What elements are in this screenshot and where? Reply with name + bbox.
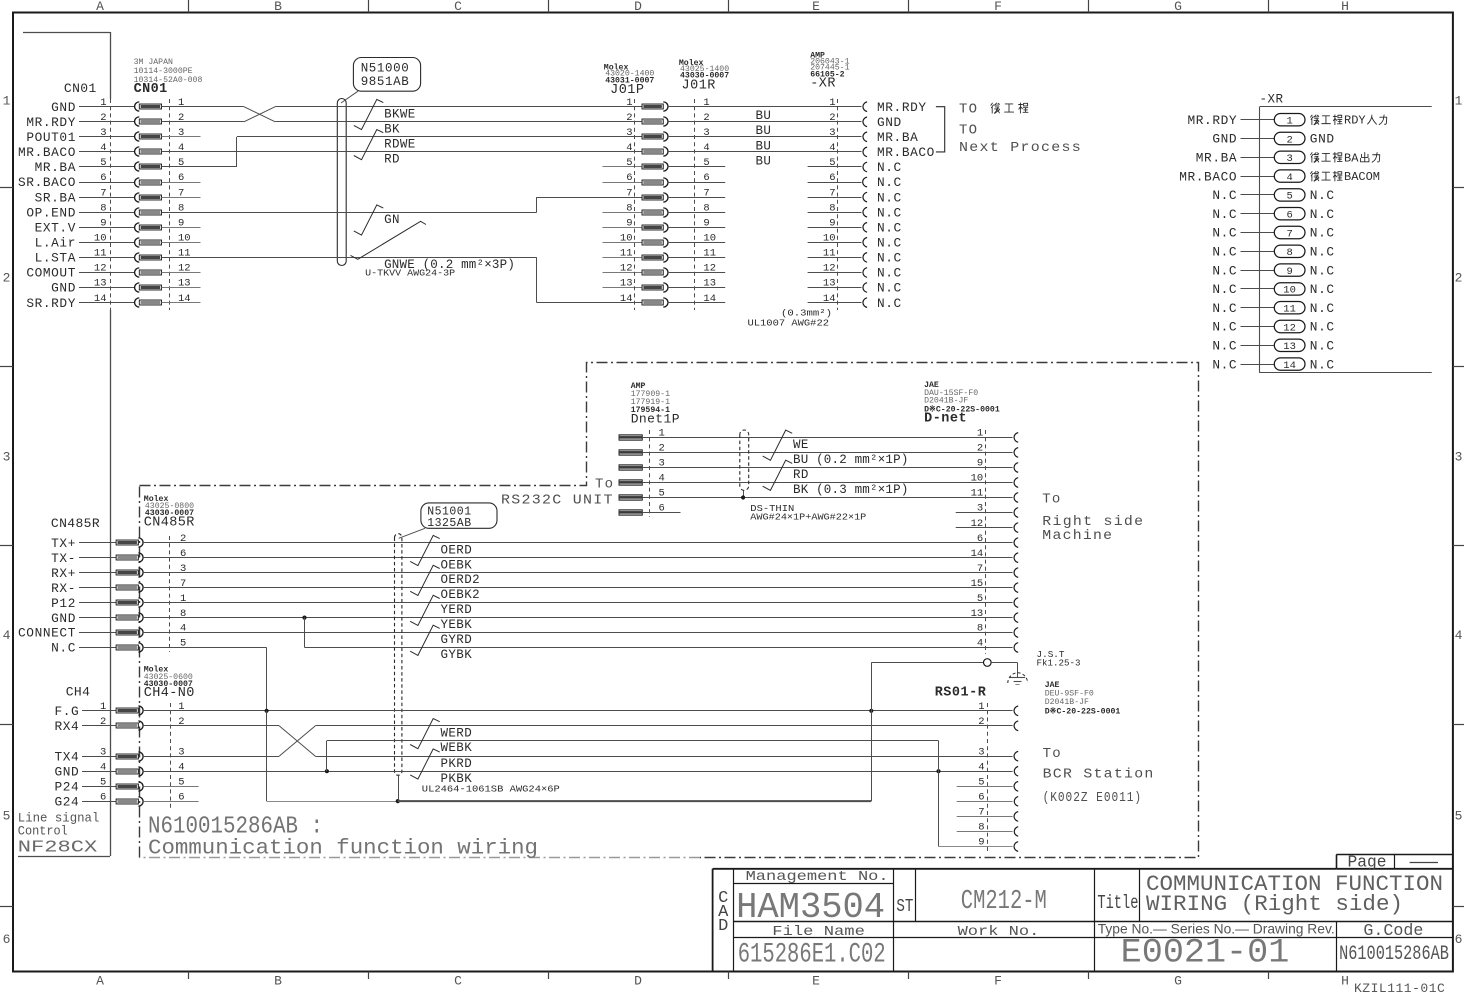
svg-text:N.C: N.C xyxy=(1310,339,1335,354)
svg-text:11: 11 xyxy=(620,248,633,260)
CN01 pin 3 stub xyxy=(162,136,201,138)
svg-text:3: 3 xyxy=(1455,449,1463,464)
svg-text:POUT01: POUT01 xyxy=(26,130,76,145)
svg-text:E0021-01: E0021-01 xyxy=(1121,934,1290,972)
Dnet cable shield dashed oval xyxy=(740,430,749,490)
svg-text:OEBK2: OEBK2 xyxy=(441,588,481,602)
svg-text:File Name: File Name xyxy=(772,924,865,940)
wires Dnet1P to D-net xyxy=(642,437,1012,439)
svg-text:11: 11 xyxy=(94,248,107,260)
svg-text:5: 5 xyxy=(100,776,106,788)
Dnet1P pin 2 contact xyxy=(619,450,642,455)
svg-text:3: 3 xyxy=(829,127,835,139)
svg-text:6: 6 xyxy=(1455,932,1463,947)
wire CN01-1 to crossover xyxy=(162,106,244,108)
svg-text:N.C: N.C xyxy=(1212,188,1237,203)
machine boundary bracket top xyxy=(23,32,110,34)
svg-text:N.C: N.C xyxy=(1212,245,1237,260)
svg-text:To: To xyxy=(1043,746,1062,762)
svg-text:N51000: N51000 xyxy=(361,62,410,76)
svg-text:7: 7 xyxy=(626,187,632,199)
svg-text:L.STA: L.STA xyxy=(35,251,76,266)
svg-text:YERD: YERD xyxy=(441,603,473,617)
wire CN01-11 L.STA jog down xyxy=(162,257,537,259)
wire TX4 to crossover xyxy=(144,756,279,758)
svg-text:2: 2 xyxy=(703,112,709,124)
svg-text:RDWE: RDWE xyxy=(384,137,416,151)
svg-text:D2041B-JF: D2041B-JF xyxy=(1045,698,1089,707)
svg-text:KZIL111-01C: KZIL111-01C xyxy=(1354,981,1445,992)
svg-text:OERD2: OERD2 xyxy=(441,573,481,587)
svg-text:F: F xyxy=(994,0,1002,14)
wire PKRD to RS01-R pin 3 xyxy=(315,756,1012,758)
svg-text:4: 4 xyxy=(100,761,106,773)
svg-text:GND: GND xyxy=(51,100,76,115)
svg-text:BU: BU xyxy=(756,124,772,138)
svg-text:N.C: N.C xyxy=(1212,339,1237,354)
svg-text:MR.BA: MR.BA xyxy=(35,160,76,175)
svg-text:NF28CX: NF28CX xyxy=(18,839,98,858)
svg-text:Title: Title xyxy=(1097,892,1138,914)
svg-text:A: A xyxy=(96,0,104,14)
svg-text:4: 4 xyxy=(1455,628,1463,643)
svg-text:Fk1.25-3: Fk1.25-3 xyxy=(1037,658,1081,669)
svg-text:3: 3 xyxy=(703,127,709,139)
cable label box N51000 9851AB xyxy=(353,58,420,92)
svg-text:4: 4 xyxy=(178,142,184,154)
svg-text:13: 13 xyxy=(620,278,633,290)
svg-text:N.C: N.C xyxy=(1310,245,1335,260)
leader from N51001 box to shield xyxy=(399,528,425,538)
svg-text:5: 5 xyxy=(703,157,709,169)
svg-text:N.C: N.C xyxy=(877,236,902,251)
svg-text:8: 8 xyxy=(100,202,106,214)
J01R housing dashed line xyxy=(694,99,696,310)
svg-text:BK (0.3 mm²×1P): BK (0.3 mm²×1P) xyxy=(793,483,909,497)
svg-text:Line signal: Line signal xyxy=(18,812,100,826)
svg-text:PKRD: PKRD xyxy=(441,757,473,771)
wire GNWE to J01P-14 xyxy=(537,302,642,304)
svg-text:CONNECT: CONNECT xyxy=(18,626,76,641)
svg-text:14: 14 xyxy=(94,293,107,305)
svg-text:G: G xyxy=(1174,974,1182,989)
wire RX4 to crossover xyxy=(144,725,279,727)
svg-text:10: 10 xyxy=(620,233,633,245)
svg-text:SR.RDY: SR.RDY xyxy=(26,296,76,311)
svg-text:CH4-N0: CH4-N0 xyxy=(144,686,195,701)
svg-text:6: 6 xyxy=(626,172,632,184)
communication function boundary dash-dot box xyxy=(140,363,1199,858)
svg-text:2: 2 xyxy=(626,112,632,124)
svg-text:N.C: N.C xyxy=(1310,263,1335,278)
svg-text:10: 10 xyxy=(1283,285,1296,297)
svg-text:D-net: D-net xyxy=(924,412,967,427)
svg-text:RX+: RX+ xyxy=(51,566,76,581)
wire to RS01-R pin 9 xyxy=(939,846,1013,848)
svg-text:Dnet1P: Dnet1P xyxy=(631,412,680,427)
svg-text:1: 1 xyxy=(1286,116,1292,128)
svg-text:1: 1 xyxy=(977,428,983,440)
svg-text:10: 10 xyxy=(971,473,984,485)
svg-text:WIRING (Right side): WIRING (Right side) xyxy=(1146,892,1403,917)
splice circle J.S.T Fk1.25-3 xyxy=(984,659,992,667)
svg-text:MR.BACO: MR.BACO xyxy=(877,145,935,160)
svg-text:MR.RDY: MR.RDY xyxy=(1188,113,1238,128)
svg-text:CN01: CN01 xyxy=(134,82,168,97)
svg-text:7: 7 xyxy=(1286,228,1292,240)
machine boundary vertical line xyxy=(110,32,112,99)
svg-text:10: 10 xyxy=(94,233,107,245)
svg-text:4: 4 xyxy=(703,142,709,154)
svg-text:5: 5 xyxy=(100,157,106,169)
svg-text:N.C: N.C xyxy=(877,175,902,190)
svg-text:N.C: N.C xyxy=(1212,301,1237,316)
wire F.G row to RS01-R pin 1 xyxy=(144,710,1013,712)
svg-text:RS01-R: RS01-R xyxy=(935,686,987,701)
svg-text:Management No.: Management No. xyxy=(746,869,889,885)
svg-text:1: 1 xyxy=(3,94,11,109)
svg-text:6: 6 xyxy=(100,172,106,184)
svg-text:(K002Z E0011): (K002Z E0011) xyxy=(1043,790,1143,806)
svg-text:GND: GND xyxy=(51,611,76,626)
svg-text:Control: Control xyxy=(18,825,68,839)
zone tick marks right xyxy=(1453,187,1464,189)
svg-text:9: 9 xyxy=(978,837,984,849)
svg-text:OEBK: OEBK xyxy=(441,558,473,572)
Dnet1P housing dashed line xyxy=(649,430,651,517)
svg-text:YEBK: YEBK xyxy=(441,618,473,632)
svg-text:N.C: N.C xyxy=(1212,357,1237,372)
svg-text:9: 9 xyxy=(977,458,983,470)
svg-text:COMOUT: COMOUT xyxy=(26,266,76,281)
D-net housing dashed line xyxy=(985,430,987,654)
wire crossover X pins 1-2 xyxy=(244,107,275,122)
svg-text:5: 5 xyxy=(626,157,632,169)
svg-text:C: C xyxy=(454,974,462,989)
Dnet1P pin 3 contact xyxy=(619,465,642,470)
svg-text:BACOM: BACOM xyxy=(1344,170,1380,184)
svg-text:Machine: Machine xyxy=(1042,528,1113,544)
svg-text:GND: GND xyxy=(1310,132,1335,147)
svg-text:N.C: N.C xyxy=(877,296,902,311)
wires CN485R to D-net xyxy=(144,542,1013,544)
svg-text:2: 2 xyxy=(100,112,106,124)
svg-text:N.C: N.C xyxy=(877,190,902,205)
ground wire from RS01-R pin1 branch xyxy=(871,662,983,664)
svg-text:Page: Page xyxy=(1348,854,1387,873)
svg-text:4: 4 xyxy=(100,142,106,154)
svg-text:TX-: TX- xyxy=(51,551,76,566)
svg-text:4: 4 xyxy=(978,762,984,774)
svg-text:BA: BA xyxy=(1344,151,1359,165)
svg-text:5: 5 xyxy=(829,157,835,169)
svg-text:C: C xyxy=(454,0,462,14)
CN01 housing dashed lines xyxy=(110,99,112,310)
svg-text:14: 14 xyxy=(971,548,984,560)
page dash xyxy=(1410,862,1438,864)
cable label box N51001 1325AB xyxy=(421,503,497,528)
svg-text:3: 3 xyxy=(3,449,11,464)
wire RD CN01-4 to J01P-4 xyxy=(162,151,643,153)
svg-text:4: 4 xyxy=(3,628,11,643)
svg-text:GN: GN xyxy=(384,213,400,227)
svg-text:12: 12 xyxy=(1283,322,1296,334)
svg-text:MR.BACO: MR.BACO xyxy=(1179,169,1237,184)
svg-text:N.C: N.C xyxy=(877,205,902,220)
svg-text:N.C: N.C xyxy=(1212,226,1237,241)
CH4 P24 stub xyxy=(144,786,199,788)
svg-text:J01P: J01P xyxy=(610,83,644,98)
svg-text:E: E xyxy=(812,974,820,989)
svg-text:D: D xyxy=(634,974,642,989)
svg-text:5: 5 xyxy=(1455,809,1463,824)
svg-text:2: 2 xyxy=(977,443,983,455)
svg-text:P12: P12 xyxy=(51,596,76,611)
svg-text:RX4: RX4 xyxy=(54,719,79,734)
Dnet1P pin 6 contact xyxy=(619,510,642,515)
svg-text:ST: ST xyxy=(896,897,913,917)
svg-text:-XR: -XR xyxy=(810,77,836,92)
svg-text:To: To xyxy=(595,477,614,493)
svg-text:EXT.V: EXT.V xyxy=(35,221,76,236)
svg-text:N.C: N.C xyxy=(1310,188,1335,203)
CN485R housing dashed line xyxy=(169,536,171,652)
svg-text:N.C: N.C xyxy=(1310,301,1335,316)
svg-text:OERD: OERD xyxy=(441,543,473,557)
svg-text:-XR: -XR xyxy=(1260,93,1284,107)
svg-text:F.G: F.G xyxy=(54,704,79,719)
zone tick marks left xyxy=(0,187,13,189)
svg-text:1: 1 xyxy=(978,701,984,713)
svg-text:WE: WE xyxy=(793,438,809,452)
svg-text:N.C: N.C xyxy=(1212,207,1237,222)
wire CN485R N.C to F.G junction xyxy=(144,647,267,649)
RS01-R stub pins 5-8 xyxy=(957,786,1013,788)
svg-text:RX-: RX- xyxy=(51,581,76,596)
svg-text:3: 3 xyxy=(978,746,984,758)
svg-text:13: 13 xyxy=(1283,341,1296,353)
svg-text:1: 1 xyxy=(703,97,709,109)
svg-text:BU: BU xyxy=(756,109,772,123)
svg-text:To: To xyxy=(1042,492,1061,508)
svg-text:BU (0.2 mm²×1P): BU (0.2 mm²×1P) xyxy=(793,453,909,467)
svg-text:615286E1.C02: 615286E1.C02 xyxy=(738,940,886,971)
svg-text:D※C-20-22S-0001: D※C-20-22S-0001 xyxy=(1045,706,1121,716)
svg-text:N.C: N.C xyxy=(877,251,902,266)
svg-text:RDY: RDY xyxy=(1344,114,1366,128)
junction GND branch xyxy=(302,616,306,620)
svg-text:N.C: N.C xyxy=(1310,207,1335,222)
svg-text:2: 2 xyxy=(100,716,106,728)
-XR housing dashed line xyxy=(837,99,839,310)
J01P housing dashed line xyxy=(634,99,636,310)
svg-text:U-TKVV AWG24-3P: U-TKVV AWG24-3P xyxy=(365,268,455,279)
svg-text:1: 1 xyxy=(626,97,632,109)
svg-text:6: 6 xyxy=(3,932,11,947)
svg-text:5: 5 xyxy=(1286,191,1292,203)
svg-text:2: 2 xyxy=(178,716,184,728)
svg-text:H: H xyxy=(1341,974,1349,989)
svg-text:TO: TO xyxy=(959,123,978,139)
svg-text:RD: RD xyxy=(793,468,809,482)
svg-text:N.C: N.C xyxy=(1212,263,1237,278)
svg-text:P24: P24 xyxy=(54,779,79,794)
svg-text:SR.BA: SR.BA xyxy=(35,190,76,205)
svg-text:BU: BU xyxy=(756,139,772,153)
svg-text:13: 13 xyxy=(94,278,107,290)
svg-text:2: 2 xyxy=(829,112,835,124)
Dnet1P pin 5 contact xyxy=(619,495,642,500)
J01P unconnected pin stubs xyxy=(603,166,643,168)
zone tick marks bottom xyxy=(188,972,190,980)
svg-text:N.C: N.C xyxy=(1212,320,1237,335)
svg-text:N610015286AB :: N610015286AB : xyxy=(148,814,323,841)
svg-text:1: 1 xyxy=(178,97,184,109)
svg-text:2: 2 xyxy=(1455,271,1463,286)
svg-text:14: 14 xyxy=(620,293,633,305)
CN01 unconnected pin stubs xyxy=(162,136,201,138)
svg-text:BCR Station: BCR Station xyxy=(1043,767,1155,783)
svg-text:B: B xyxy=(274,0,282,14)
Dnet1P pin 4 contact xyxy=(619,480,642,485)
svg-text:6: 6 xyxy=(1286,210,1292,222)
svg-text:6: 6 xyxy=(180,548,186,560)
CH4 housing dashed line xyxy=(170,703,172,808)
svg-text:BK: BK xyxy=(384,122,400,136)
wire GND PKBK to RS01-R pin 4 xyxy=(144,771,1013,773)
svg-text:1325AB: 1325AB xyxy=(427,517,471,530)
svg-text:N.C: N.C xyxy=(1310,282,1335,297)
svg-text:9: 9 xyxy=(1286,266,1292,278)
svg-text:11: 11 xyxy=(1283,304,1296,316)
svg-text:4: 4 xyxy=(1286,172,1292,184)
svg-text:11: 11 xyxy=(971,488,984,500)
svg-text:9: 9 xyxy=(626,218,632,230)
svg-text:10114-3000PE: 10114-3000PE xyxy=(134,67,193,76)
earth ground symbol xyxy=(1010,677,1025,679)
svg-text:9: 9 xyxy=(100,218,106,230)
svg-text:N.C: N.C xyxy=(877,160,902,175)
svg-text:BU: BU xyxy=(756,154,772,168)
svg-text:B: B xyxy=(274,974,282,989)
svg-text:D2041B-JF: D2041B-JF xyxy=(924,397,968,406)
svg-text:J01R: J01R xyxy=(682,79,716,94)
svg-text:BKWE: BKWE xyxy=(384,107,416,121)
svg-text:1: 1 xyxy=(829,97,835,109)
svg-text:A: A xyxy=(96,974,104,989)
svg-text:SR.BACO: SR.BACO xyxy=(18,175,76,190)
svg-text:2: 2 xyxy=(180,533,186,545)
svg-text:9851AB: 9851AB xyxy=(361,75,410,89)
svg-text:N.C: N.C xyxy=(1310,226,1335,241)
svg-text:8: 8 xyxy=(626,202,632,214)
Dnet1P pin 1 contact xyxy=(619,435,642,440)
svg-text:N610015286AB: N610015286AB xyxy=(1339,943,1449,966)
svg-text:G.Code: G.Code xyxy=(1363,922,1423,941)
J01R stub wires rows 5-14 xyxy=(668,166,725,168)
svg-text:G24: G24 xyxy=(54,794,79,809)
svg-text:4: 4 xyxy=(626,142,632,154)
svg-text:2: 2 xyxy=(978,716,984,728)
Dnet1P pin 6 stub xyxy=(642,512,680,514)
cable shield N51001 dashed oval xyxy=(395,534,402,776)
title block outline xyxy=(713,868,1337,870)
svg-text:L.Air: L.Air xyxy=(35,236,76,251)
-XR terminal table box xyxy=(1260,106,1432,108)
svg-text:GND: GND xyxy=(877,115,902,130)
wire CN01-2 to crossover xyxy=(162,121,244,123)
svg-text:CN485R: CN485R xyxy=(51,516,100,531)
svg-text:N.C: N.C xyxy=(877,281,902,296)
svg-text:3: 3 xyxy=(626,127,632,139)
svg-text:OP.END: OP.END xyxy=(26,205,76,220)
svg-text:N.C: N.C xyxy=(1310,357,1335,372)
svg-text:WERD: WERD xyxy=(441,726,473,740)
svg-text:1: 1 xyxy=(100,701,106,713)
svg-text:1: 1 xyxy=(100,97,106,109)
D-net stub pins 3 and 12 xyxy=(956,512,1013,514)
svg-text:MR.RDY: MR.RDY xyxy=(877,100,927,115)
svg-text:N.C: N.C xyxy=(877,221,902,236)
wire RDWE to J01P-3 xyxy=(237,136,642,138)
svg-text:CN485R: CN485R xyxy=(144,516,195,531)
svg-text:5: 5 xyxy=(178,157,184,169)
svg-text:CH4: CH4 xyxy=(66,685,91,700)
svg-text:N.C: N.C xyxy=(877,266,902,281)
machine boundary bottom bar xyxy=(18,856,110,858)
svg-text:GND: GND xyxy=(1212,132,1237,147)
svg-text:RD: RD xyxy=(384,153,400,167)
svg-text:3: 3 xyxy=(1286,153,1292,165)
svg-text:5: 5 xyxy=(3,809,11,824)
svg-text:G: G xyxy=(1174,0,1182,14)
svg-text:1: 1 xyxy=(1455,94,1463,109)
bracket to next process xyxy=(936,107,945,152)
svg-text:8: 8 xyxy=(1286,247,1292,259)
leader from N51000 box to shield xyxy=(341,91,358,103)
wire WERD to RS01-R pin 2 xyxy=(315,725,1012,727)
svg-text:GYRD: GYRD xyxy=(441,633,473,647)
cable shield N51000 oval xyxy=(337,98,346,265)
svg-text:E: E xyxy=(812,0,820,14)
svg-text:F: F xyxy=(994,974,1002,989)
svg-text:AWG#24×1P+AWG#22×1P: AWG#24×1P+AWG#22×1P xyxy=(750,512,866,523)
svg-text:7: 7 xyxy=(100,187,106,199)
svg-text:RS232C UNIT: RS232C UNIT xyxy=(501,493,614,509)
svg-text:MR.RDY: MR.RDY xyxy=(26,115,76,130)
wire GN to J01P-7 xyxy=(537,197,642,199)
svg-text:4: 4 xyxy=(829,142,835,154)
svg-text:TX4: TX4 xyxy=(54,749,79,764)
wire CN01-8 OP.END jog xyxy=(162,212,537,214)
shield drain to ground bus xyxy=(398,775,400,802)
zone tick marks top xyxy=(188,0,190,13)
svg-text:UL2464-1061SB AWG24×6P: UL2464-1061SB AWG24×6P xyxy=(422,784,560,795)
svg-text:WEBK: WEBK xyxy=(441,741,473,755)
wire BKWE to J01P-1 xyxy=(275,106,642,108)
svg-text:TO: TO xyxy=(959,102,978,118)
svg-text:3M JAPAN: 3M JAPAN xyxy=(134,58,173,67)
svg-text:GYBK: GYBK xyxy=(441,648,473,662)
svg-text:2: 2 xyxy=(178,112,184,124)
svg-text:GND: GND xyxy=(51,281,76,296)
svg-text:N.C: N.C xyxy=(1212,282,1237,297)
svg-text:Next Process: Next Process xyxy=(959,140,1082,156)
svg-text:D: D xyxy=(634,0,642,14)
ground bus wire xyxy=(266,711,268,801)
svg-text:Communication function wiring: Communication function wiring xyxy=(148,838,538,861)
shield drain to wire 5 xyxy=(743,490,745,497)
